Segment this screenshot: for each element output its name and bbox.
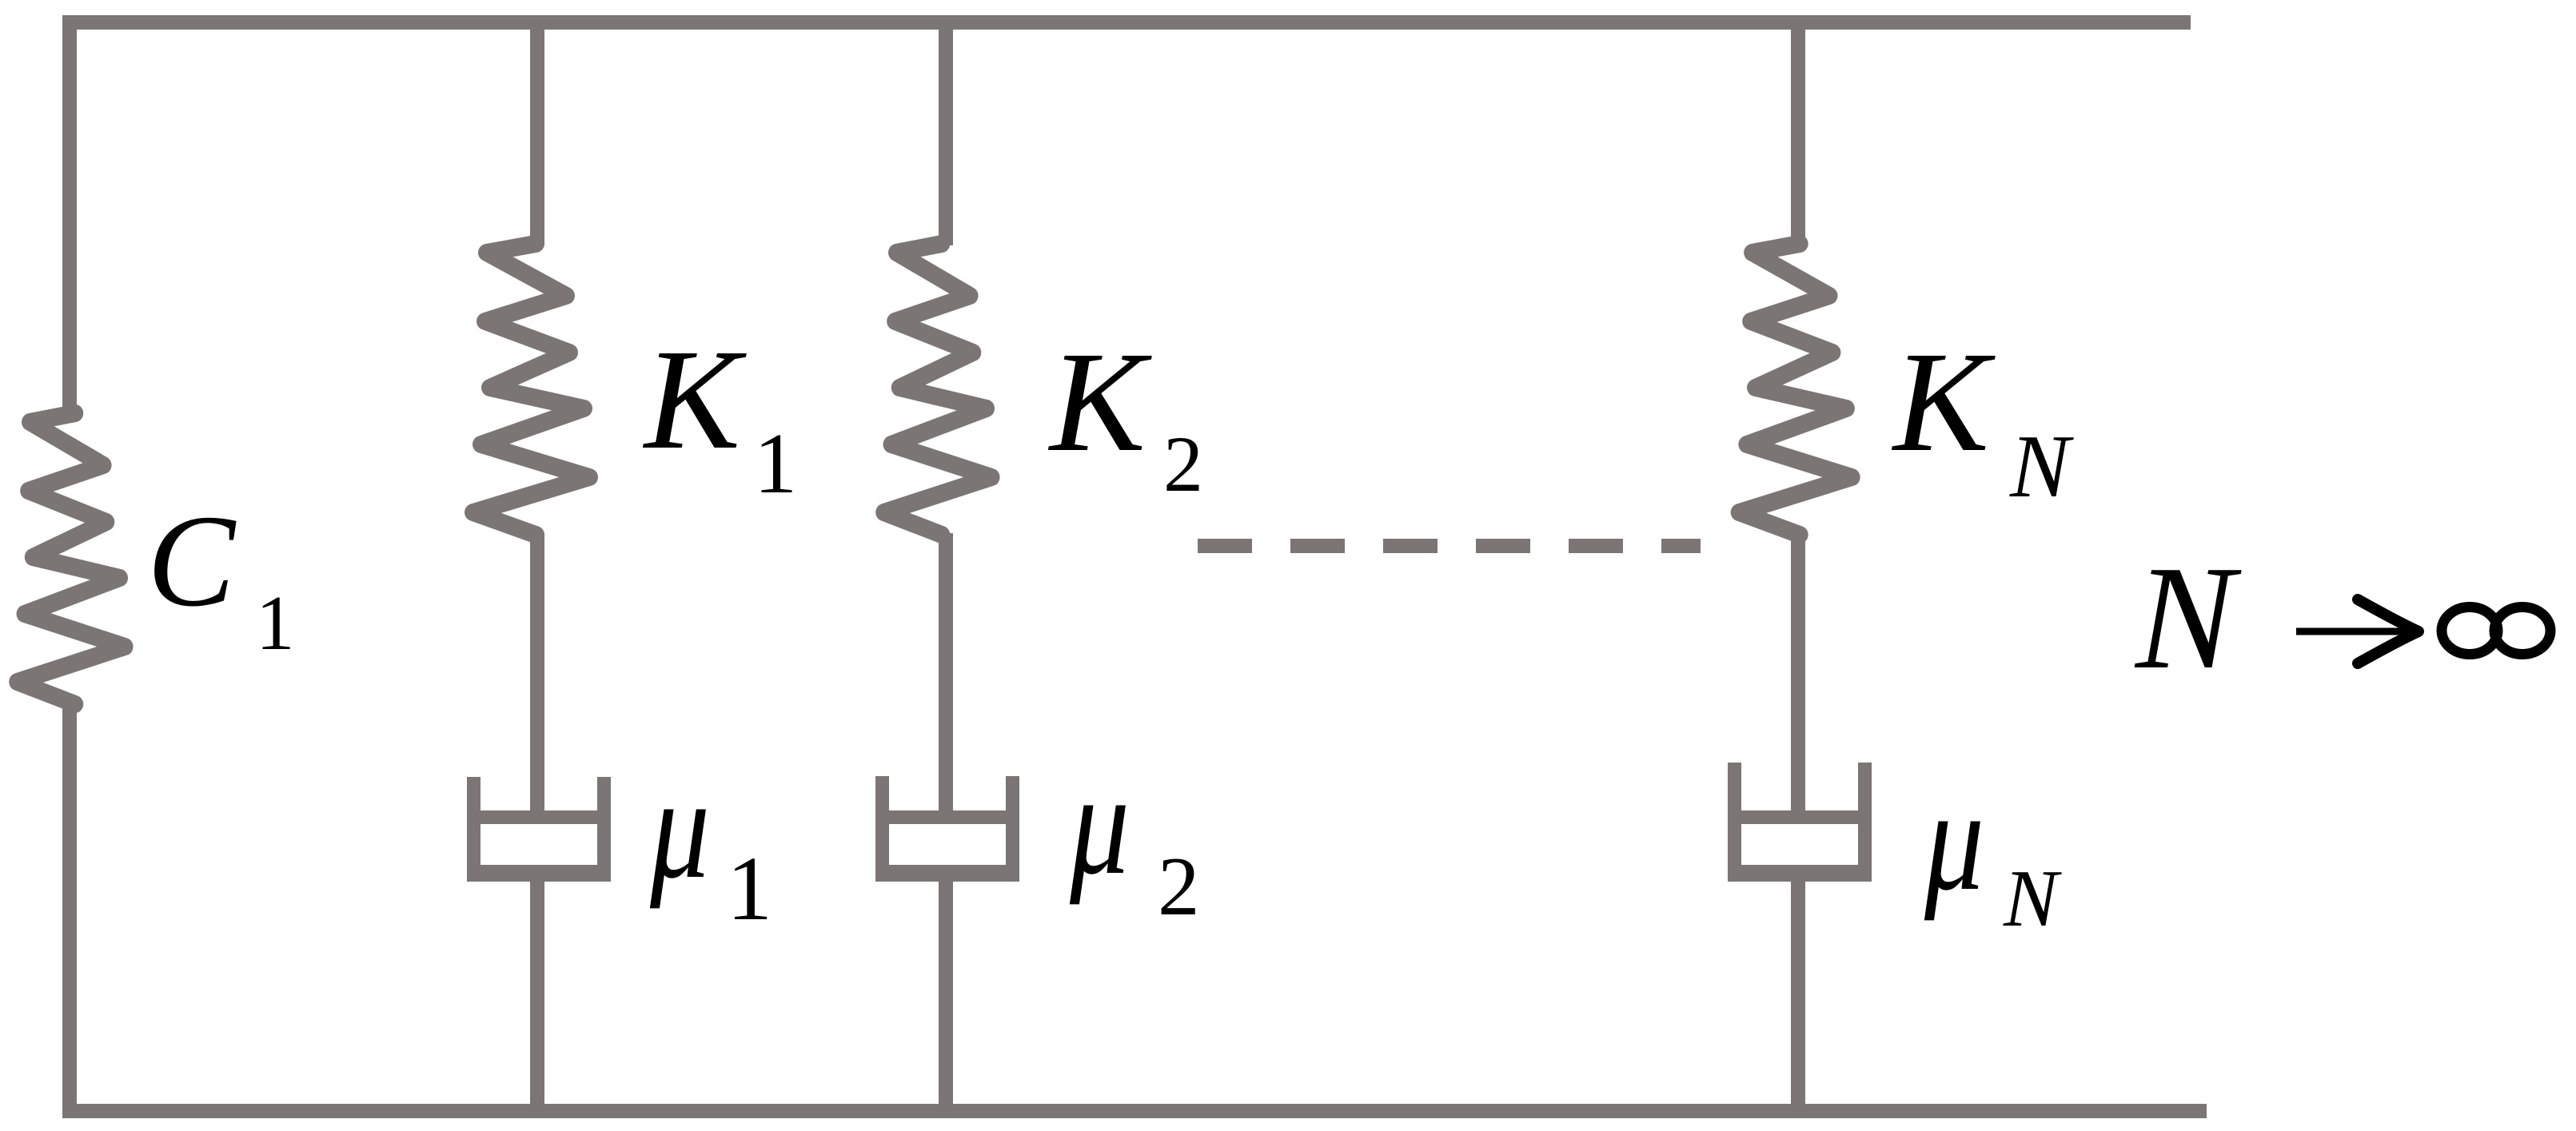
wire from top bus to spring C1 [62, 15, 77, 415]
infinity symbol right lobe [2494, 607, 2550, 655]
svg-text:K: K [642, 320, 747, 479]
svg-text:2: 2 [1163, 420, 1203, 508]
spring K2 [883, 244, 991, 535]
dashpot mu2 cup right wall [1006, 776, 1019, 879]
svg-text:C: C [147, 488, 237, 634]
dashed continuation line [1198, 539, 1701, 553]
svg-text:N: N [2009, 417, 2074, 516]
dashpot muN cup right wall [1858, 763, 1872, 879]
dashpot mu2 cup left wall [875, 776, 889, 879]
svg-text:K: K [1047, 322, 1152, 481]
wire from spring KN to dashpot piston [1791, 533, 1805, 821]
wire from top bus to spring KN [1791, 15, 1805, 245]
dashpot muN cup bottom [1728, 865, 1872, 882]
svg-text:1: 1 [256, 580, 295, 666]
wire from dashpot mu2 to bottom bus [939, 879, 953, 1118]
svg-text:μ: μ [1924, 759, 1984, 921]
arrow shaft [2296, 628, 2413, 635]
dashpot muN piston plate [1739, 810, 1860, 824]
svg-text:μ: μ [1069, 743, 1130, 905]
wire from spring K1 to dashpot piston [530, 533, 544, 821]
svg-text:2: 2 [1158, 839, 1200, 933]
svg-text:N: N [2134, 536, 2242, 700]
dashpot mu2 piston plate [887, 810, 1008, 824]
infinity symbol left lobe [2442, 607, 2498, 655]
wire from top bus to spring K1 [530, 15, 544, 245]
wire from spring K2 to dashpot piston [939, 533, 953, 821]
top bus wire [62, 15, 2191, 30]
dashpot mu1 piston plate [478, 810, 600, 824]
bottom bus wire [62, 1104, 2207, 1118]
svg-text:1: 1 [754, 416, 797, 512]
svg-text:1: 1 [727, 838, 772, 939]
spring C1 [17, 413, 125, 704]
wire from top bus to spring K2 [939, 15, 953, 245]
svg-text:μ: μ [649, 747, 710, 909]
dashpot mu1 cup bottom [467, 865, 611, 882]
spring KN [1739, 244, 1852, 535]
svg-text:N: N [2003, 854, 2062, 944]
spring K1 [473, 244, 589, 535]
wire from dashpot muN to bottom bus [1791, 879, 1805, 1118]
dashpot mu2 cup bottom [875, 865, 1019, 882]
svg-text:K: K [1891, 322, 1996, 481]
arrow head [2358, 599, 2418, 663]
wire from dashpot mu1 to bottom bus [530, 879, 544, 1118]
dashpot mu1 cup right wall [597, 777, 611, 879]
dashpot mu1 cup left wall [467, 777, 481, 879]
wire from spring C1 to bottom bus [62, 703, 77, 1118]
dashpot muN cup left wall [1728, 763, 1741, 879]
